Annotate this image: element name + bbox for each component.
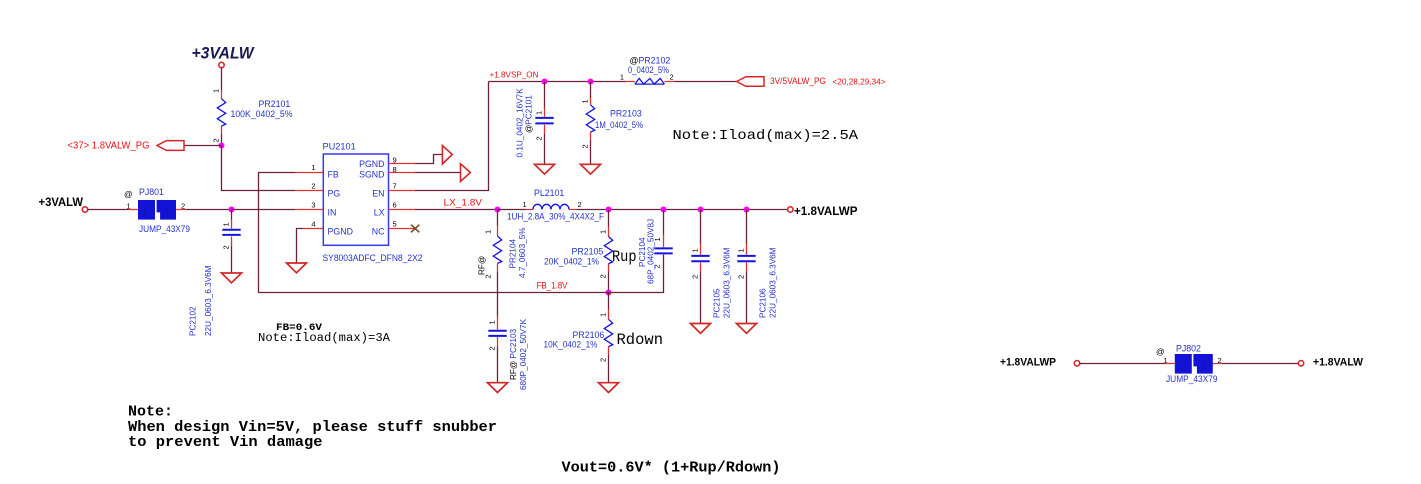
net label FB_1.8V [537, 280, 568, 290]
wire pin4 PGND to ground [297, 229, 304, 264]
svg-text:1: 1 [599, 313, 608, 317]
svg-text:7: 7 [393, 182, 397, 191]
svg-text:1: 1 [222, 222, 231, 226]
svg-text:2: 2 [691, 275, 700, 279]
pin 5 NC stub [389, 220, 415, 229]
wire PR2102 to off-page connector [674, 81, 737, 83]
svg-text:Note:Iload(max)=2.5A: Note:Iload(max)=2.5A [673, 128, 859, 144]
svg-text:2: 2 [535, 136, 544, 140]
svg-text:2: 2 [1203, 364, 1207, 371]
svg-text:1: 1 [212, 89, 221, 93]
svg-text:22U_0603_6.3V6M: 22U_0603_6.3V6M [204, 265, 213, 336]
svg-text:1: 1 [581, 99, 590, 103]
svg-text:PGND: PGND [359, 159, 384, 169]
svg-text:4.7_0603_5%: 4.7_0603_5% [518, 227, 527, 278]
svg-text:RF@: RF@ [478, 256, 487, 275]
svg-text:NC: NC [372, 227, 385, 237]
jumper PJ802 [1156, 343, 1222, 384]
capacitor PC2103 [488, 317, 529, 391]
pin 9 PGND stub [389, 156, 415, 165]
svg-text:2: 2 [166, 210, 170, 217]
svg-text:2: 2 [311, 182, 315, 191]
wire jumper PJ801 to IN junction [176, 209, 232, 211]
svg-text:8: 8 [393, 165, 397, 174]
svg-text:+3VALW: +3VALW [192, 45, 255, 63]
svg-text:1: 1 [535, 111, 544, 115]
net label LX_1.8V [444, 198, 483, 209]
svg-text:1: 1 [488, 320, 497, 324]
note Iload max 3A [258, 332, 390, 345]
svg-text:20K_0402_1%: 20K_0402_1% [544, 256, 599, 266]
ground under PC2106 [737, 324, 757, 334]
svg-text:<20,28,29,34>: <20,28,29,34> [833, 78, 886, 87]
svg-text:<37> 1.8VALW_PG: <37> 1.8VALW_PG [68, 140, 150, 151]
wire junction to chip IN pin [232, 209, 296, 211]
node junction PC2105 top [698, 207, 704, 213]
power net label +1.8VALWP (right section) [1000, 356, 1056, 368]
wire +1.8VALWP to jumper PJ802 [1080, 363, 1223, 365]
svg-text:Rdown: Rdown [617, 331, 664, 349]
IC PU2101 [323, 142, 423, 263]
svg-text:@: @ [124, 189, 133, 199]
svg-text:PR2106: PR2106 [573, 330, 605, 340]
svg-text:2: 2 [599, 358, 608, 362]
node junction FB divider [606, 290, 612, 296]
jumper PJ801 [124, 187, 190, 234]
ground under PC2101 [535, 164, 555, 174]
ground under pin 4 [287, 263, 307, 273]
svg-text:PJ802: PJ802 [1176, 343, 1201, 353]
svg-text:PR2101: PR2101 [259, 99, 291, 109]
inductor PL2101 [498, 188, 605, 222]
svg-text:100K_0402_5%: 100K_0402_5% [231, 109, 293, 119]
node junction PC2102 / IN [229, 207, 235, 213]
svg-text:PC2102: PC2102 [189, 306, 198, 336]
power port circle +3VALW left [82, 207, 87, 212]
svg-text:Note:Iload(max)=3A: Note:Iload(max)=3A [258, 332, 390, 345]
svg-text:PR2105: PR2105 [572, 247, 604, 257]
svg-text:1: 1 [311, 163, 315, 172]
svg-text:22U_0603_6.3V6M: 22U_0603_6.3V6M [769, 247, 778, 318]
node junction PR2105 top [606, 207, 612, 213]
svg-text:4: 4 [311, 220, 315, 229]
svg-text:680P_0402_50V7K: 680P_0402_50V7K [519, 318, 528, 390]
ground under PC2105 [691, 324, 711, 334]
svg-text:1UH_2.8A_30%_4X4X2_F: 1UH_2.8A_30%_4X4X2_F [507, 211, 605, 221]
wire pin 7 EN up to +1.8VSP_ON rail [415, 82, 489, 191]
svg-text:2: 2 [578, 200, 582, 209]
svg-text:0.1U_0402_16V7K: 0.1U_0402_16V7K [516, 88, 525, 158]
svg-text:1: 1 [127, 202, 131, 211]
svg-text:SY8003ADFC_DFN8_2X2: SY8003ADFC_DFN8_2X2 [323, 253, 423, 263]
svg-text:2: 2 [581, 144, 590, 148]
svg-text:+1.8VALWP: +1.8VALWP [794, 204, 858, 218]
svg-text:LX: LX [374, 208, 385, 218]
ground under PR2103 [581, 164, 601, 174]
svg-text:LX_1.8V: LX_1.8V [444, 198, 483, 209]
svg-text:PL2101: PL2101 [534, 188, 564, 198]
svg-text:2: 2 [599, 274, 608, 278]
power arrow at pin 8 [461, 164, 471, 182]
off-page connector 3V/5VALW_PG [737, 76, 886, 87]
wire output rail to +1.8VALWP [577, 209, 789, 211]
svg-text:Vout=0.6V* (1+Rup/Rdown): Vout=0.6V* (1+Rup/Rdown) [562, 460, 781, 477]
svg-text:2: 2 [1218, 356, 1222, 365]
resistor PR2103 [581, 82, 644, 165]
svg-text:FB: FB [328, 170, 339, 180]
power port circle +3VALW top [219, 62, 224, 67]
pin 1 FB stub [295, 163, 323, 173]
pin 2 PG stub [295, 182, 323, 191]
note snubber text [128, 404, 497, 452]
wire pin 8 to power arrow [415, 172, 461, 174]
wire FB net [259, 173, 664, 293]
svg-text:+1.8VSP_ON: +1.8VSP_ON [490, 70, 539, 80]
wire LX pin to inductor [415, 209, 498, 211]
ground under PC2103 [488, 383, 508, 393]
node junction PC2104 top [661, 207, 667, 213]
ground under PR2106 [599, 383, 619, 393]
capacitor PC2101 [516, 82, 554, 165]
wire junction down to PG pin [222, 146, 296, 191]
svg-text:1: 1 [1164, 356, 1168, 365]
wire jumper PJ802 to +1.8VALW [1222, 363, 1299, 365]
svg-text:SGND: SGND [359, 170, 384, 180]
svg-text:6: 6 [393, 201, 397, 210]
resistor PR2104 snubber [478, 210, 528, 317]
label Rdown [617, 331, 664, 349]
capacitor PC2104 [638, 210, 673, 285]
svg-text:JUMP_43X79: JUMP_43X79 [1166, 374, 1218, 384]
svg-text:5: 5 [393, 220, 397, 229]
svg-text:22U_0603_6.3V6M: 22U_0603_6.3V6M [723, 247, 732, 318]
note FB=0.6V [276, 322, 323, 334]
resistor PR2105 Rup [544, 210, 613, 293]
svg-text:to prevent Vin damage: to prevent Vin damage [128, 434, 323, 451]
node junction PC2106 top [744, 207, 750, 213]
node junction PC2101 [542, 79, 548, 85]
svg-text:1M_0402_5%: 1M_0402_5% [595, 120, 643, 130]
svg-text:IN: IN [328, 208, 337, 218]
svg-text:PC2106: PC2106 [759, 288, 768, 318]
power port circle +1.8VALW [1298, 361, 1303, 366]
svg-text:2: 2 [488, 346, 497, 350]
wire +1.8VSP_ON rail [489, 81, 626, 83]
capacitor PC2102 [189, 210, 241, 337]
svg-text:1: 1 [620, 73, 624, 82]
svg-text:JUMP_43X79: JUMP_43X79 [139, 224, 190, 234]
power port circle +1.8VALWP [788, 207, 793, 212]
svg-text:3V/5VALW_PG: 3V/5VALW_PG [770, 76, 826, 86]
node junction LX / PR2104 [495, 207, 501, 213]
svg-text:1: 1 [737, 248, 746, 252]
off-page connector 1.8VALW_PG [68, 140, 222, 151]
svg-text:PGND: PGND [328, 227, 353, 237]
svg-text:Rup: Rup [612, 248, 637, 266]
wire pin 9 to power arrow [415, 155, 443, 164]
svg-text:@PC2101: @PC2101 [525, 95, 534, 133]
node junction PR2103 [588, 79, 594, 85]
svg-text:2: 2 [212, 138, 221, 142]
svg-text:FB_1.8V: FB_1.8V [537, 280, 568, 290]
label Rup [612, 248, 637, 266]
svg-text:3: 3 [311, 201, 315, 210]
svg-text:1: 1 [484, 230, 493, 234]
svg-text:9: 9 [393, 156, 397, 165]
svg-text:PU2101: PU2101 [323, 142, 356, 152]
ground under PC2102 [222, 273, 242, 283]
svg-text:PG: PG [328, 189, 341, 199]
svg-text:EN: EN [372, 189, 384, 199]
wire from +3VALW circle to resistor PR2101 [221, 68, 223, 91]
svg-text:+3VALW: +3VALW [39, 195, 84, 209]
svg-text:+1.8VALWP: +1.8VALWP [1000, 356, 1056, 368]
wire +3VALW to jumper PJ801 [88, 209, 139, 211]
formula Vout [562, 460, 781, 477]
pin 6 LX stub [389, 201, 415, 210]
svg-text:0_0402_5%: 0_0402_5% [628, 65, 669, 75]
note Iload max 2.5A [673, 128, 859, 144]
power net label +3VALW (top) [192, 45, 255, 63]
capacitor PC2106 [737, 210, 778, 324]
svg-text:1: 1 [599, 230, 608, 234]
svg-text:PC2105: PC2105 [713, 288, 722, 318]
svg-text:2: 2 [737, 275, 746, 279]
pin 8 SGND stub [389, 165, 415, 174]
power arrow at pin 9 [442, 146, 452, 165]
resistor PR2106 Rdown [544, 293, 613, 383]
svg-text:2: 2 [670, 73, 674, 82]
svg-text:68P_0402_50V8J: 68P_0402_50V8J [647, 219, 656, 284]
svg-text:+1.8VALW: +1.8VALW [1313, 356, 1363, 368]
svg-text:RF@ PC2103: RF@ PC2103 [509, 328, 518, 380]
svg-text:10K_0402_1%: 10K_0402_1% [544, 340, 598, 350]
power net label +1.8VALWP [794, 204, 858, 218]
node junction PG pullup [219, 143, 225, 149]
power port circle +1.8VALWP right [1074, 361, 1079, 366]
pin 7 EN stub [389, 182, 415, 191]
svg-text:1: 1 [143, 210, 147, 217]
pin 3 IN stub [295, 201, 323, 210]
svg-text:PR2103: PR2103 [610, 108, 642, 118]
svg-text:2: 2 [222, 245, 231, 249]
capacitor PC2105 [691, 210, 732, 324]
svg-text:@PR2102: @PR2102 [630, 55, 671, 65]
svg-text:1: 1 [691, 248, 700, 252]
resistor PR2102 [620, 55, 674, 84]
wire PR2101 to junction [221, 135, 223, 146]
pin 4 PGND stub [303, 220, 323, 229]
svg-text:PR2104: PR2104 [509, 238, 518, 268]
power net label +1.8VALW [1313, 356, 1363, 368]
power net label +3VALW (left) [39, 195, 84, 209]
no-connect X on pin 5 [411, 225, 419, 233]
net label +1.8VSP_ON [490, 70, 539, 80]
svg-text:1: 1 [523, 200, 527, 209]
svg-text:PJ801: PJ801 [139, 187, 164, 197]
svg-text:1: 1 [1179, 364, 1183, 371]
resistor PR2101 [212, 89, 293, 143]
